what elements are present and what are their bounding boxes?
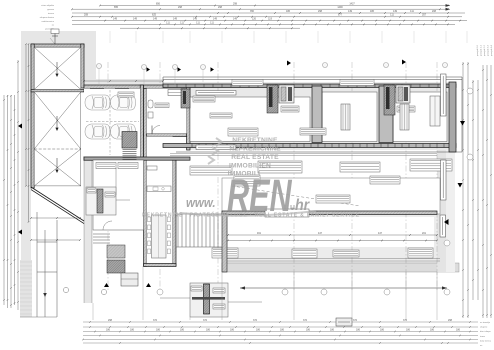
- assembly cluster room3 head: [384, 85, 410, 115]
- label box deck note 1: [212, 248, 238, 258]
- wing long note strip: [196, 91, 236, 96]
- entry detail hatched block B: [107, 260, 125, 273]
- slope arrow lower cell: [56, 116, 58, 128]
- wall left wing top: [31, 44, 84, 47]
- terrace top wall dark: [222, 211, 437, 214]
- left wing interior lower cell: [34, 92, 81, 186]
- dimension row BL-stub2: [30, 239, 81, 241]
- section flags top: [147, 60, 407, 72]
- svg-text:625: 625: [152, 14, 157, 17]
- svg-text:NEKRETNINE: NEKRETNINE: [232, 137, 278, 144]
- svg-text:655: 655: [114, 6, 119, 9]
- wall left wing mid horizontal: [31, 90, 84, 92]
- grid head circles: [97, 63, 448, 70]
- watermark chevrons: [208, 138, 222, 164]
- terrace left wall: [222, 214, 227, 272]
- svg-text:461: 461: [257, 232, 262, 235]
- top extension stubs: [72, 31, 467, 43]
- svg-text:NEKRETNINE I PRATEĆE USLUGE ·: NEKRETNINE I PRATEĆE USLUGE · REAL ESTAT…: [142, 211, 360, 219]
- vertical dimension row R5: [482, 65, 484, 318]
- mid thin lines: [170, 154, 437, 156]
- watermark underline swoosh: [180, 211, 316, 216]
- leader diagonal to garage band: [50, 38, 84, 80]
- svg-text:372: 372: [153, 319, 158, 322]
- garage centre dashed lines: [86, 90, 139, 155]
- svg-text:372: 372: [203, 319, 208, 322]
- label box room2 head note: [281, 106, 299, 112]
- label box room2 note: [300, 128, 326, 135]
- label box terrace note c: [316, 195, 350, 203]
- wall section leader lines: [160, 298, 262, 302]
- svg-text:149: 149: [193, 18, 198, 21]
- label box mid note 2: [258, 161, 302, 173]
- svg-text:298: 298: [108, 319, 113, 322]
- kitchen counter: [147, 186, 171, 192]
- detail cluster left-centre frame: [86, 187, 116, 215]
- dimension row B4: [83, 335, 478, 337]
- X bracing lower cell 1: [34, 92, 81, 149]
- label box wing head note 2: [340, 80, 374, 86]
- svg-text:149: 149: [133, 18, 138, 21]
- svg-text:186: 186: [286, 10, 291, 13]
- wing top label tag: [51, 29, 59, 34]
- svg-text:298: 298: [233, 2, 238, 5]
- watermark www.REN.hr: [186, 171, 310, 221]
- vertical dimension row L5: [17, 60, 19, 310]
- room3 right fixture: [430, 96, 440, 126]
- svg-text:149: 149: [113, 18, 118, 21]
- left section marker arrow lower: [18, 230, 22, 235]
- svg-text:186: 186: [130, 328, 135, 331]
- room2 vertical fixture: [341, 104, 350, 130]
- svg-text:kota terena: kota terena: [480, 339, 492, 342]
- dimension row T2: [71, 8, 450, 10]
- svg-text:186: 186: [230, 328, 235, 331]
- driveway ramp lines: [37, 212, 57, 317]
- svg-text:186: 186: [456, 328, 461, 331]
- svg-text:126: 126: [252, 18, 257, 21]
- dining table: [152, 215, 167, 258]
- svg-text:1437: 1437: [349, 2, 355, 5]
- svg-text:dno iskopa: dno iskopa: [480, 331, 491, 333]
- svg-text:298: 298: [218, 6, 223, 9]
- svg-text:nadstresnica: nadstresnica: [42, 20, 55, 23]
- terrace small steps: [285, 205, 294, 214]
- X bracing lower cell 2: [34, 149, 81, 186]
- terrace notch: [265, 209, 309, 217]
- dimension row T6: [72, 24, 455, 26]
- svg-text:677: 677: [338, 14, 343, 17]
- dimension row terrace d1: [227, 234, 438, 236]
- grid axis lines vertical: [108, 62, 437, 290]
- svg-text:presjek 4-4: presjek 4-4: [490, 44, 493, 56]
- svg-text:terasa: terasa: [48, 12, 55, 15]
- wall section detail vertical wall: [204, 284, 210, 314]
- right side vertical band: [437, 150, 446, 272]
- vertical dimension row L1: [3, 95, 5, 305]
- right band label vertical 2: [441, 74, 447, 116]
- grid bubble right B: [467, 154, 473, 160]
- top right rotated labels: [476, 44, 493, 56]
- label box entry note b: [118, 163, 138, 169]
- slope arrow upper cell: [56, 62, 58, 74]
- vertical dimension row R4: [477, 80, 479, 300]
- garage door marks top: [90, 88, 129, 90]
- entry steps: [93, 234, 110, 243]
- stair core block: [122, 132, 137, 149]
- bottom marker triangles: [104, 283, 151, 287]
- wall section detail frame: [190, 283, 228, 317]
- svg-text:NEPREMIČNINE: NEPREMIČNINE: [229, 144, 281, 153]
- wing bottom column ticks: [192, 144, 451, 148]
- label box room1 head note: [193, 96, 215, 102]
- label box room3 head note: [397, 106, 415, 112]
- wc fixtures: [148, 100, 153, 108]
- room3 vertical fixture: [400, 104, 409, 130]
- svg-text:186: 186: [306, 328, 311, 331]
- wall dining bottom: [144, 264, 176, 267]
- dimension row B5: [82, 339, 478, 341]
- lower vertical stubs: [93, 266, 437, 320]
- svg-text:149: 149: [233, 18, 238, 21]
- wall upper rooms top: [144, 85, 190, 88]
- room 2 interior: [322, 92, 377, 142]
- label box mid note 4: [410, 159, 452, 171]
- svg-text:186: 186: [206, 328, 211, 331]
- dimension row T7: [120, 27, 300, 29]
- label box garage note: [118, 92, 134, 97]
- car 4: [111, 124, 136, 139]
- left section marker arrow upper: [18, 124, 22, 129]
- right side vertical band 2: [446, 150, 455, 272]
- upper room door arc: [152, 126, 160, 134]
- room 1 terrace interior: [190, 97, 310, 142]
- terrace inner white area: [228, 217, 434, 247]
- svg-text:ukupna duzina: ukupna duzina: [40, 17, 55, 19]
- svg-text:presjek 2-2: presjek 2-2: [483, 44, 486, 56]
- svg-text:208: 208: [432, 10, 437, 13]
- vertical dimension row L2: [7, 95, 9, 308]
- svg-text:372: 372: [303, 319, 308, 322]
- dining room interior: [147, 137, 173, 265]
- grid bubble right C: [444, 240, 450, 246]
- svg-text:298: 298: [178, 6, 183, 9]
- pantry shelf: [147, 166, 157, 170]
- assembly cluster above room1: [181, 89, 190, 108]
- wall core left wall: [144, 88, 147, 266]
- dimension row T1: [99, 5, 450, 7]
- label box mid note 3: [340, 162, 380, 172]
- assembly cluster room2 head: [267, 85, 294, 113]
- vertical dimension row L-wing-b: [28, 43, 30, 223]
- label box terrace note a: [234, 175, 260, 186]
- label box mid note 1: [190, 166, 232, 175]
- dimension row garage top: [83, 80, 164, 82]
- svg-text:298: 298: [318, 10, 323, 13]
- vertical dimension row L4: [14, 95, 16, 305]
- right black triangle: [444, 219, 449, 225]
- lower hatched ground band: [222, 263, 459, 272]
- entry area outline: [93, 160, 144, 230]
- section detail small right: [336, 318, 352, 326]
- car 1: [85, 95, 110, 110]
- stair treads: [123, 150, 137, 167]
- wall garage top: [84, 85, 144, 88]
- vertical dimension row L3: [10, 95, 12, 308]
- label box room note 1: [155, 103, 169, 108]
- bottom marker circles small: [63, 287, 106, 294]
- upper room interior: [147, 88, 187, 133]
- label box deck note 2: [292, 249, 317, 258]
- chairs left: [148, 217, 171, 254]
- entry door arc: [103, 221, 112, 230]
- svg-text:298: 298: [448, 319, 453, 322]
- garage floor: [84, 88, 140, 156]
- bottom dimension label column right side: [480, 321, 492, 347]
- dimension row B1: [83, 321, 478, 323]
- label box terrace note b: [370, 176, 400, 184]
- closet in upper room: [168, 90, 184, 96]
- wall garage right: [140, 85, 143, 160]
- right band label vertical 1: [440, 215, 446, 237]
- svg-text:372: 372: [253, 319, 258, 322]
- deck strip lines: [222, 259, 440, 262]
- wall rooms south wall: [84, 157, 190, 160]
- dimension row terrace d2: [227, 240, 438, 242]
- wall section detail black band: [192, 297, 225, 300]
- vertical dimension row R2: [467, 62, 469, 318]
- svg-text:149: 149: [348, 10, 353, 13]
- label box section note 2: [213, 288, 225, 293]
- svg-text:201: 201: [422, 232, 427, 235]
- car 2: [111, 95, 136, 110]
- label box section note 1: [191, 286, 202, 291]
- svg-text:presjek 3-3: presjek 3-3: [487, 44, 490, 56]
- terrace upper outline: [222, 178, 440, 214]
- vertical dimension row R6: [486, 65, 488, 318]
- svg-text:www.: www.: [186, 196, 216, 211]
- vertical dimension row R3: [472, 80, 474, 300]
- terrace dashed leader diagonal: [232, 186, 360, 206]
- svg-text:186: 186: [180, 328, 185, 331]
- label box detail note L2: [105, 192, 115, 197]
- left wing interior upper cell: [34, 47, 81, 89]
- top row arrowheads: [446, 4, 451, 10]
- wing top column ticks: [168, 84, 447, 88]
- dimension row B2: [83, 326, 478, 328]
- wall garage bottom: [84, 157, 144, 160]
- grid head stubs: [99, 69, 203, 86]
- terrace deck lower strip: [222, 214, 440, 272]
- terrain band top of left wing: [21, 31, 96, 44]
- svg-text:149: 149: [173, 18, 178, 21]
- vertical dimension row R7: [490, 65, 492, 318]
- svg-text:186: 186: [280, 328, 285, 331]
- svg-text:119: 119: [268, 18, 272, 21]
- svg-text:149: 149: [213, 18, 218, 21]
- top dimension label column: [40, 4, 55, 30]
- long dimension with arrows y288: [240, 287, 447, 289]
- vertical dimension row R1: [462, 62, 464, 318]
- wall left wing left side: [31, 44, 34, 188]
- wall lower rooms right wall: [173, 160, 176, 266]
- svg-text:1490: 1490: [337, 6, 343, 9]
- detail cluster left-centre hatch: [97, 189, 103, 213]
- svg-text:186: 186: [406, 328, 411, 331]
- wall partition 1-2: [312, 86, 322, 143]
- steps west of terrace: [178, 214, 218, 247]
- grid bubble right A: [467, 88, 473, 94]
- svg-text:186: 186: [380, 328, 385, 331]
- svg-text:186: 186: [330, 328, 335, 331]
- svg-text:357: 357: [422, 14, 427, 17]
- corridor white west of room1: [163, 88, 186, 150]
- svg-text:208: 208: [84, 14, 89, 17]
- svg-text:856: 856: [156, 2, 161, 5]
- wall left wing right side upper: [81, 44, 84, 88]
- wall partition 2-3: [379, 86, 393, 143]
- svg-text:186: 186: [356, 328, 361, 331]
- terrain band above garage: [84, 79, 163, 88]
- stair treads crossing south wall: [123, 158, 137, 168]
- svg-text:447: 447: [318, 232, 323, 235]
- svg-text:149: 149: [153, 18, 158, 21]
- svg-text:sirina objekta: sirina objekta: [41, 4, 55, 7]
- entry detail lower box: [121, 273, 138, 286]
- svg-text:presjek 0-0: presjek 0-0: [476, 44, 479, 56]
- label box deck note 4: [408, 248, 433, 258]
- svg-text:372: 372: [353, 319, 358, 322]
- svg-text:350: 350: [250, 10, 255, 13]
- label box room1 note 2: [210, 113, 232, 118]
- terrain band left strip: [21, 31, 31, 303]
- wall right wing top: [163, 84, 456, 88]
- ramp end line: [20, 316, 57, 318]
- svg-text:teren: teren: [480, 335, 486, 338]
- svg-text:REAL ESTATE: REAL ESTATE: [231, 154, 279, 161]
- dimension row BL-stub1: [30, 217, 81, 219]
- label box wing head note 1: [232, 80, 263, 86]
- driveway ramp arrow: [43, 293, 47, 297]
- watermark word stack: [228, 137, 281, 178]
- svg-text:447: 447: [378, 232, 383, 235]
- right edge triangle lower: [458, 183, 463, 188]
- right wing parapet line: [163, 77, 462, 152]
- svg-text:149: 149: [393, 10, 398, 13]
- vertical dimension row L-wing-a: [25, 43, 27, 187]
- svg-text:presjek 1-1: presjek 1-1: [480, 44, 483, 56]
- right wing floor slab: [163, 82, 456, 150]
- svg-text:ukupno: ukupno: [480, 327, 488, 329]
- wing top stub dimension: [52, 33, 58, 44]
- dimension row B3: [83, 331, 478, 333]
- room 3 interior: [393, 92, 447, 142]
- svg-text:372: 372: [403, 319, 408, 322]
- X bracing upper cell: [34, 47, 81, 89]
- svg-text:186: 186: [430, 328, 435, 331]
- path south of core: [176, 214, 222, 247]
- svg-text:os temelja: os temelja: [480, 321, 491, 324]
- svg-text:186: 186: [256, 328, 261, 331]
- left wing diagonal wall: [31, 187, 84, 224]
- entry detail hatched block A: [107, 245, 125, 258]
- slope arrow lower cell 2: [56, 158, 58, 170]
- label box section note 3: [213, 304, 225, 309]
- terrain strip central vertical walkway: [83, 160, 93, 303]
- terrain band right of left wing: [84, 33, 96, 88]
- label box detail note L1: [87, 188, 96, 193]
- wall right wing right end: [449, 82, 456, 152]
- dimension row T3: [72, 12, 465, 14]
- right edge triangle upper: [460, 121, 465, 126]
- wall upper rooms mid: [144, 134, 187, 137]
- dimension row B6: [83, 342, 478, 344]
- bottom grid bubbles: [157, 289, 450, 295]
- entry leader lines: [105, 168, 130, 200]
- dimension row T5: [72, 20, 467, 22]
- wall right wing bottom: [163, 144, 456, 148]
- svg-text:IMMOBILIEN: IMMOBILIEN: [229, 163, 271, 170]
- right band label vertical 3: [441, 160, 447, 200]
- dimension row T4: [71, 16, 462, 18]
- label box deck note 3: [333, 250, 359, 257]
- svg-text:186: 186: [106, 328, 111, 331]
- wall upper rooms right: [187, 85, 190, 150]
- svg-text:garaza: garaza: [47, 8, 54, 11]
- car 3: [85, 124, 110, 139]
- svg-text:186: 186: [156, 328, 161, 331]
- svg-text:186: 186: [370, 10, 375, 13]
- label box room1 note: [228, 128, 258, 136]
- label box entry note a: [96, 163, 116, 169]
